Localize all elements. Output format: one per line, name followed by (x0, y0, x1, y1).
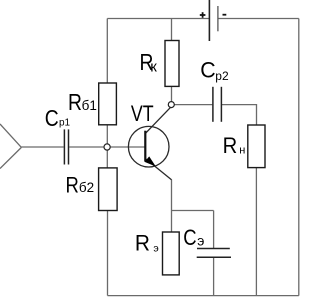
svg-text:э: э (197, 233, 204, 249)
svg-text:к: к (150, 58, 157, 75)
svg-text:R: R (66, 174, 79, 198)
svg-text:C: C (45, 106, 59, 131)
svg-text:б1: б1 (82, 98, 97, 113)
svg-text:p2: p2 (215, 69, 229, 83)
svg-text:н: н (239, 144, 245, 156)
svg-text:б2: б2 (79, 180, 94, 195)
svg-text:C: C (183, 227, 196, 251)
svg-text:R: R (223, 134, 238, 158)
svg-text:p1: p1 (59, 117, 71, 128)
svg-text:э: э (153, 243, 158, 255)
svg-text:C: C (200, 57, 215, 82)
svg-text:VT: VT (131, 102, 154, 126)
svg-text:R: R (135, 231, 150, 256)
svg-text:R: R (68, 91, 82, 116)
